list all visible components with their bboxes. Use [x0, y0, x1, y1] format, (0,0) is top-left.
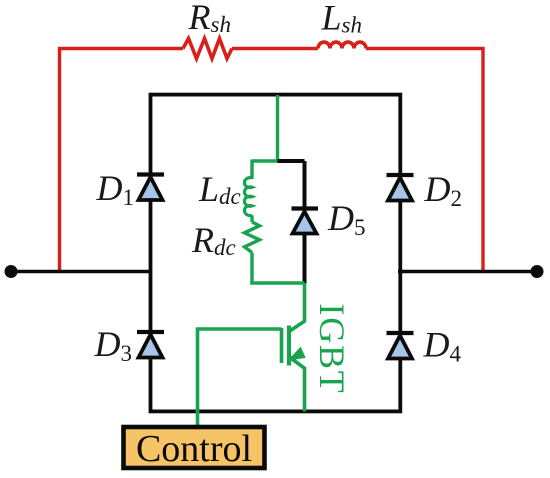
svg-text:D4: D4: [423, 325, 462, 367]
node: left terminal dot: [5, 265, 18, 278]
wire: red top right segment: [366, 47, 485, 50]
wire: green top of Ldc branch: [252, 159, 279, 162]
diode D3: [137, 332, 164, 358]
diode D5: [292, 209, 319, 234]
wire: red segment between Rsh and Lsh: [232, 47, 318, 50]
wire: left middle rail: [11, 270, 152, 273]
transistor IGBT body bar: [287, 326, 291, 366]
inductor Ldc coil: [244, 178, 252, 216]
transistor IGBT emitter diagonal: [290, 358, 306, 370]
resistor Rdc zigzag: [245, 222, 260, 253]
diode D2: [387, 175, 414, 201]
bridge rectangle outline: [151, 95, 401, 412]
wire: red shunt loop left vertical: [58, 49, 61, 272]
svg-text:Rsh: Rsh: [188, 0, 231, 37]
wire: green bottom of dc branch: [250, 281, 304, 284]
transistor IGBT gate bar: [280, 328, 284, 363]
transistor IGBT emitter wire: [303, 368, 307, 412]
node: right terminal dot: [531, 265, 544, 278]
svg-text:Control: Control: [136, 428, 252, 470]
wire: red top left segment to Rsh: [58, 47, 183, 50]
transistor IGBT collector wire: [303, 283, 307, 321]
wire: green Ldc branch upper segment: [250, 160, 253, 180]
diode D4: [387, 333, 414, 359]
svg-text:IGBT: IGBT: [312, 303, 352, 394]
svg-text:D3: D3: [94, 324, 133, 366]
control box: [124, 427, 265, 468]
transistor IGBT collector diagonal: [289, 321, 306, 332]
resistor Rsh zigzag: [183, 39, 232, 59]
svg-text:D2: D2: [424, 169, 463, 211]
wire: green Ldc branch lower segment: [250, 253, 253, 285]
svg-text:Lsh: Lsh: [321, 0, 362, 38]
diode D1: [137, 175, 164, 201]
svg-text:Ldc: Ldc: [198, 169, 241, 209]
wire: green between Ldc and Rdc: [250, 215, 253, 222]
wire: black top of D5 branch: [278, 159, 305, 163]
svg-text:Rdc: Rdc: [191, 220, 236, 260]
inductor Lsh coil: [318, 42, 366, 48]
transistor IGBT emitter arrow: [289, 348, 305, 361]
wire: right middle rail: [398, 270, 537, 273]
wire: red shunt loop right vertical: [481, 47, 484, 271]
wire: green drop from top rail: [276, 95, 279, 162]
wire: D5 branch vertical: [303, 161, 307, 284]
wire: green gate lead from control: [198, 329, 282, 426]
svg-text:D1: D1: [96, 168, 135, 210]
svg-text:D5: D5: [327, 198, 366, 240]
